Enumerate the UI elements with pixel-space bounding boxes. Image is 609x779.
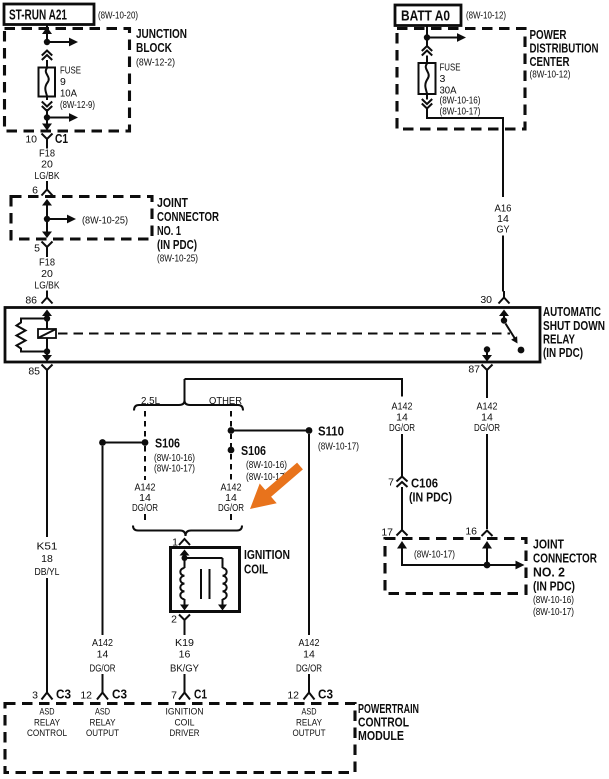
svg-text:LG/BK: LG/BK (35, 170, 60, 182)
connector C106 pin 7 (388, 476, 452, 530)
joint connector no.2 enclosure (385, 539, 526, 594)
svg-text:OUTPUT: OUTPUT (86, 728, 119, 739)
svg-text:NO. 2: NO. 2 (533, 565, 565, 580)
svg-text:87: 87 (468, 364, 480, 376)
PCM pin function ASD relay control (27, 707, 67, 740)
junction dot and branch arrow lower (42, 109, 78, 131)
wire F18 20 LG/BK lower (35, 254, 60, 293)
wire A142 from relay pin 87 (474, 377, 500, 530)
svg-text:14: 14 (97, 649, 109, 661)
svg-text:6: 6 (32, 185, 38, 197)
svg-text:DG/OR: DG/OR (90, 663, 116, 675)
svg-text:(8W-10-17): (8W-10-17) (318, 441, 359, 453)
ignition coil secondary winding (223, 568, 227, 599)
svg-text:OTHER: OTHER (209, 395, 242, 407)
svg-text:DG/OR: DG/OR (296, 663, 322, 675)
node ST-RUN A21 (4, 4, 94, 25)
svg-text:JOINT: JOINT (533, 537, 564, 552)
svg-text:5: 5 (34, 243, 40, 255)
connector chevrons above fuse 9 (42, 51, 52, 68)
orange callout arrow (250, 463, 303, 509)
svg-text:RELAY: RELAY (296, 718, 323, 729)
svg-text:(8W-10-20): (8W-10-20) (98, 10, 138, 22)
svg-text:12: 12 (287, 690, 299, 702)
svg-text:2.5L: 2.5L (141, 395, 160, 407)
wire K19 16 BK/GY (170, 627, 199, 693)
splice S110 (228, 411, 359, 453)
svg-text:7: 7 (388, 477, 394, 489)
svg-text:IGNITION: IGNITION (166, 707, 204, 718)
svg-text:ST-RUN A21: ST-RUN A21 (9, 7, 67, 24)
svg-text:COIL: COIL (175, 718, 195, 729)
automatic shut down relay box (5, 308, 540, 363)
svg-text:14: 14 (303, 649, 315, 661)
fuse 9 labels (60, 65, 95, 112)
PCM pin function ASD relay output left (86, 707, 119, 740)
PCM pin function ignition coil driver (166, 707, 204, 740)
svg-text:ASD: ASD (40, 707, 55, 718)
svg-text:(IN PDC): (IN PDC) (533, 579, 575, 594)
svg-text:10: 10 (25, 134, 37, 146)
svg-text:DG/OR: DG/OR (389, 422, 415, 434)
svg-text:C3: C3 (318, 687, 333, 702)
wire A142 left branch to coil brace (132, 446, 158, 524)
svg-text:DRIVER: DRIVER (170, 728, 200, 739)
svg-text:IGNITION: IGNITION (244, 547, 290, 562)
svg-text:GY: GY (497, 224, 510, 236)
svg-text:BK/GY: BK/GY (170, 663, 199, 675)
svg-text:S106: S106 (155, 436, 180, 451)
svg-text:S106: S106 (241, 443, 266, 458)
svg-text:DB/YL: DB/YL (35, 566, 60, 578)
relay coil K1 (38, 329, 56, 338)
svg-text:2: 2 (171, 614, 177, 626)
engine option brace 2.5L / OTHER (134, 379, 243, 411)
svg-text:(8W-10-12): (8W-10-12) (466, 10, 506, 22)
svg-text:(8W-10-17): (8W-10-17) (154, 463, 195, 475)
svg-text:S110: S110 (318, 424, 344, 439)
wire A142 bus from relay output (185, 379, 416, 476)
ignition coil winding outputs (180, 599, 227, 611)
ignition coil core (201, 569, 210, 599)
svg-text:30: 30 (480, 294, 492, 306)
relay switch blade (506, 324, 518, 344)
node BATT A0 (395, 5, 461, 26)
svg-text:(8W-10-17): (8W-10-17) (440, 106, 481, 118)
svg-text:CONTROL: CONTROL (27, 728, 67, 739)
svg-text:20: 20 (41, 159, 53, 171)
svg-text:(8W-12-2): (8W-12-2) (136, 57, 175, 69)
powertrain control module enclosure (5, 704, 355, 773)
svg-text:DG/OR: DG/OR (132, 502, 158, 514)
wire K51 18 DB/YL (35, 377, 60, 693)
svg-text:LG/BK: LG/BK (35, 280, 60, 292)
svg-text:12: 12 (80, 690, 92, 702)
power distribution center enclosure (397, 29, 525, 130)
svg-text:16: 16 (179, 649, 191, 661)
svg-text:C3: C3 (112, 687, 127, 702)
svg-text:20: 20 (41, 268, 53, 280)
svg-text:AUTOMATIC: AUTOMATIC (543, 304, 601, 319)
svg-text:C3: C3 (56, 687, 71, 702)
svg-text:RELAY: RELAY (90, 718, 117, 729)
PCM pin function ASD relay output right (293, 707, 326, 740)
svg-text:JUNCTION: JUNCTION (136, 26, 187, 41)
joint connector no.2 internal wires (397, 541, 525, 569)
svg-text:86: 86 (25, 295, 37, 307)
coil pin 2 (171, 614, 190, 628)
svg-text:F18: F18 (39, 257, 55, 269)
connector pin 5 (34, 242, 52, 255)
svg-text:17: 17 (381, 527, 393, 539)
svg-text:JOINT: JOINT (157, 195, 188, 210)
node 6 (32, 184, 52, 197)
svg-text:7: 7 (171, 690, 177, 702)
PCM connector pin 12 C3 right (287, 687, 333, 702)
relay pin 30 (480, 291, 509, 306)
svg-text:BATT A0: BATT A0 (401, 8, 450, 25)
relay switch contact (518, 347, 525, 354)
svg-text:9: 9 (60, 76, 66, 88)
svg-text:85: 85 (28, 366, 40, 378)
joint connector no.1 enclosure (11, 197, 152, 240)
relay switch common pin 30 side (499, 310, 509, 324)
svg-text:3: 3 (440, 73, 446, 85)
PCM connector pin 7 C1 (171, 687, 207, 702)
PCM connector pin 3 C3 (32, 687, 71, 702)
connector C1 pin 10 (25, 131, 68, 146)
svg-text:(IN PDC): (IN PDC) (157, 237, 197, 252)
wire F18 20 LG/BK upper (35, 146, 60, 185)
connector pin 16 (465, 526, 492, 538)
svg-text:3: 3 (32, 690, 38, 702)
svg-text:K51: K51 (37, 541, 58, 553)
svg-text:(IN PDC): (IN PDC) (409, 490, 452, 505)
svg-text:(8W-10-25): (8W-10-25) (82, 215, 128, 227)
svg-text:(8W-10-16): (8W-10-16) (246, 459, 287, 471)
relay resistor (17, 319, 48, 352)
joint connector no.1 label (157, 195, 219, 265)
svg-text:FUSE: FUSE (60, 65, 81, 77)
joint connector no.2 label (533, 537, 597, 619)
svg-text:OUTPUT: OUTPUT (293, 728, 326, 739)
svg-text:(8W-10-25): (8W-10-25) (157, 253, 198, 265)
svg-text:(8W-10-12): (8W-10-12) (530, 69, 571, 81)
svg-text:RELAY: RELAY (34, 718, 61, 729)
svg-text:A142: A142 (299, 637, 320, 649)
power distribution center label (530, 27, 599, 81)
relay coil wire pin 86 side (42, 310, 52, 330)
svg-text:MODULE: MODULE (358, 728, 404, 743)
svg-text:18: 18 (41, 553, 53, 565)
wire A142 from S110 to ASD relay output right (296, 434, 322, 693)
wire A142 right branch to coil brace (218, 454, 244, 524)
connector chevrons above fuse 3 (422, 46, 432, 63)
relay pin 87 (468, 346, 492, 376)
svg-text:DG/OR: DG/OR (474, 422, 500, 434)
svg-text:(8W-10-16): (8W-10-16) (533, 594, 574, 606)
svg-text:CONNECTOR: CONNECTOR (157, 209, 219, 224)
svg-text:C1: C1 (194, 687, 207, 702)
connector chevrons below fuse 3 (422, 94, 432, 109)
svg-text:COIL: COIL (244, 562, 268, 577)
relay actuation dashed link (58, 333, 510, 335)
ignition coil primary input (180, 550, 223, 569)
svg-text:A142: A142 (92, 637, 113, 649)
relay pin 86 (25, 292, 52, 307)
relay label (543, 304, 605, 360)
svg-text:(IN PDC): (IN PDC) (543, 345, 583, 360)
wire from BATT A0 to fuse 3 (424, 26, 466, 46)
svg-text:CENTER: CENTER (530, 54, 570, 69)
svg-text:10A: 10A (60, 88, 77, 100)
wire A142 to ASD relay output left (90, 446, 116, 693)
wire from ST-RUN A21 into junction block (42, 25, 78, 46)
connector chevrons below fuse 9 (42, 97, 52, 112)
joint connector no.1 internal wire (42, 199, 128, 238)
svg-text:C106: C106 (411, 476, 438, 491)
svg-text:C1: C1 (55, 131, 68, 146)
svg-text:(8W-12-9): (8W-12-9) (60, 99, 95, 111)
relay coil lower wire and pin 85 exit (42, 338, 52, 362)
brace joining branches into coil pin 1 (133, 526, 242, 549)
ignition coil label (244, 547, 290, 577)
svg-text:CONNECTOR: CONNECTOR (533, 551, 597, 566)
wire A16 14 GY (427, 109, 512, 292)
powertrain control module label (358, 701, 419, 743)
ignition coil primary winding (180, 568, 184, 599)
svg-text:BLOCK: BLOCK (136, 40, 172, 55)
svg-text:FUSE: FUSE (440, 62, 461, 74)
svg-text:K19: K19 (175, 637, 194, 649)
svg-text:NO. 1: NO. 1 (157, 223, 181, 238)
splice S106 left branch (99, 411, 195, 475)
splice S106 right branch (228, 434, 287, 483)
svg-text:ASD: ASD (302, 707, 317, 718)
svg-text:ASD: ASD (95, 707, 110, 718)
svg-text:DG/OR: DG/OR (218, 502, 244, 514)
junction block label (136, 26, 187, 69)
fuse 3 labels (440, 62, 481, 118)
svg-text:16: 16 (465, 526, 477, 538)
ignition coil box (171, 548, 240, 612)
fuse 3 30A (419, 63, 436, 94)
junction block enclosure (5, 29, 130, 132)
connector pin 17 (381, 527, 407, 539)
PCM connector pin 12 C3 left (80, 687, 127, 702)
fuse 9 10A (39, 68, 56, 97)
relay pin 85 (28, 365, 52, 378)
svg-text:(8W-10-17): (8W-10-17) (533, 606, 574, 618)
svg-text:(8W-10-17): (8W-10-17) (414, 549, 455, 561)
